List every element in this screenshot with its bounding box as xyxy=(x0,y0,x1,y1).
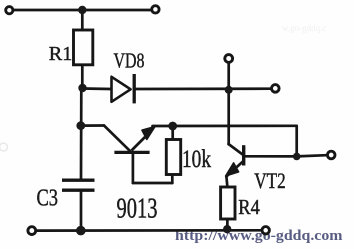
wire 9013 base lead down xyxy=(132,153,135,183)
wire top rail xyxy=(13,9,151,12)
faint watermark ghost top-right xyxy=(282,23,326,33)
wire 9013 collector diagonal xyxy=(104,126,130,152)
label C3 xyxy=(37,184,59,211)
svg-text:VT2: VT2 xyxy=(254,168,286,193)
node VT2 collector junction xyxy=(293,153,301,161)
watermark http://www.go-gddq.com xyxy=(175,228,343,244)
node collector tap junction xyxy=(76,121,85,130)
diode VD8 xyxy=(112,74,135,103)
terminal top-right xyxy=(152,6,159,13)
wire C3 bottom lead xyxy=(80,192,83,231)
node bottom-rail C3 junction xyxy=(76,226,86,236)
svg-text:9013: 9013 xyxy=(117,194,158,225)
node emitter/10k junction xyxy=(168,122,177,131)
svg-text:w.go-gddq.c: w.go-gddq.c xyxy=(282,23,326,33)
wire VT2 base diagonal xyxy=(229,144,244,155)
terminal diode-row right xyxy=(272,85,280,93)
wire R1 bottom lead to diode-row junction xyxy=(81,65,84,90)
wire right corner down xyxy=(295,126,298,157)
resistor R4 xyxy=(221,187,235,219)
terminal top-left xyxy=(6,7,13,14)
wire right junction to right terminal xyxy=(297,155,327,156)
wire 9013 base to 10k bottom xyxy=(133,182,172,185)
scan artifact (left edge ring) xyxy=(0,143,8,151)
terminal collector-row right xyxy=(327,151,335,159)
capacitor C3 xyxy=(62,180,95,190)
node diode-row right junction xyxy=(225,86,233,94)
label VD8 xyxy=(114,49,145,73)
svg-text:R1: R1 xyxy=(49,43,73,65)
svg-text:R4: R4 xyxy=(238,195,260,219)
resistor 10k xyxy=(166,140,180,175)
svg-text:C3: C3 xyxy=(37,184,59,211)
transistor VT2 xyxy=(226,145,244,176)
wire 9013 collector tap horizontal xyxy=(81,124,104,127)
wire bottom rail xyxy=(37,229,262,232)
terminal bottom-right xyxy=(262,227,269,234)
wire R4 bottom lead xyxy=(226,219,229,231)
wire diode cathode to right terminal xyxy=(136,87,271,90)
wire 10k bottom lead up xyxy=(171,174,174,183)
wire emitter junction row y=126 xyxy=(153,124,297,127)
terminal bottom-left xyxy=(28,227,36,235)
transistor 9013 xyxy=(114,127,155,153)
svg-text:VD8: VD8 xyxy=(114,49,145,73)
wire left rail junction to C3 top xyxy=(80,89,83,179)
terminal diode-row upper xyxy=(225,55,233,63)
label R1 xyxy=(49,43,73,65)
label 10k xyxy=(182,146,211,173)
svg-text:10k: 10k xyxy=(182,146,211,173)
label R4 xyxy=(238,195,260,219)
wire diode row: junction to diode anode xyxy=(82,87,110,90)
node top-rail junction xyxy=(78,6,86,14)
label 9013 xyxy=(117,194,158,225)
wire VT2 emitter to R4 top xyxy=(226,177,227,188)
wire R1 top lead xyxy=(81,10,84,31)
resistor R1 xyxy=(74,30,93,65)
label VT2 xyxy=(254,168,286,193)
node diode-row left junction xyxy=(78,84,86,92)
wire VT2 collector to right junction xyxy=(245,155,297,158)
wire 10k top lead xyxy=(171,126,174,140)
node bottom-rail R4 junction xyxy=(223,225,231,233)
wire VT2 emitter diagonal xyxy=(226,161,243,177)
wire vertical from top terminal through diode row to VT2 base xyxy=(227,64,230,145)
